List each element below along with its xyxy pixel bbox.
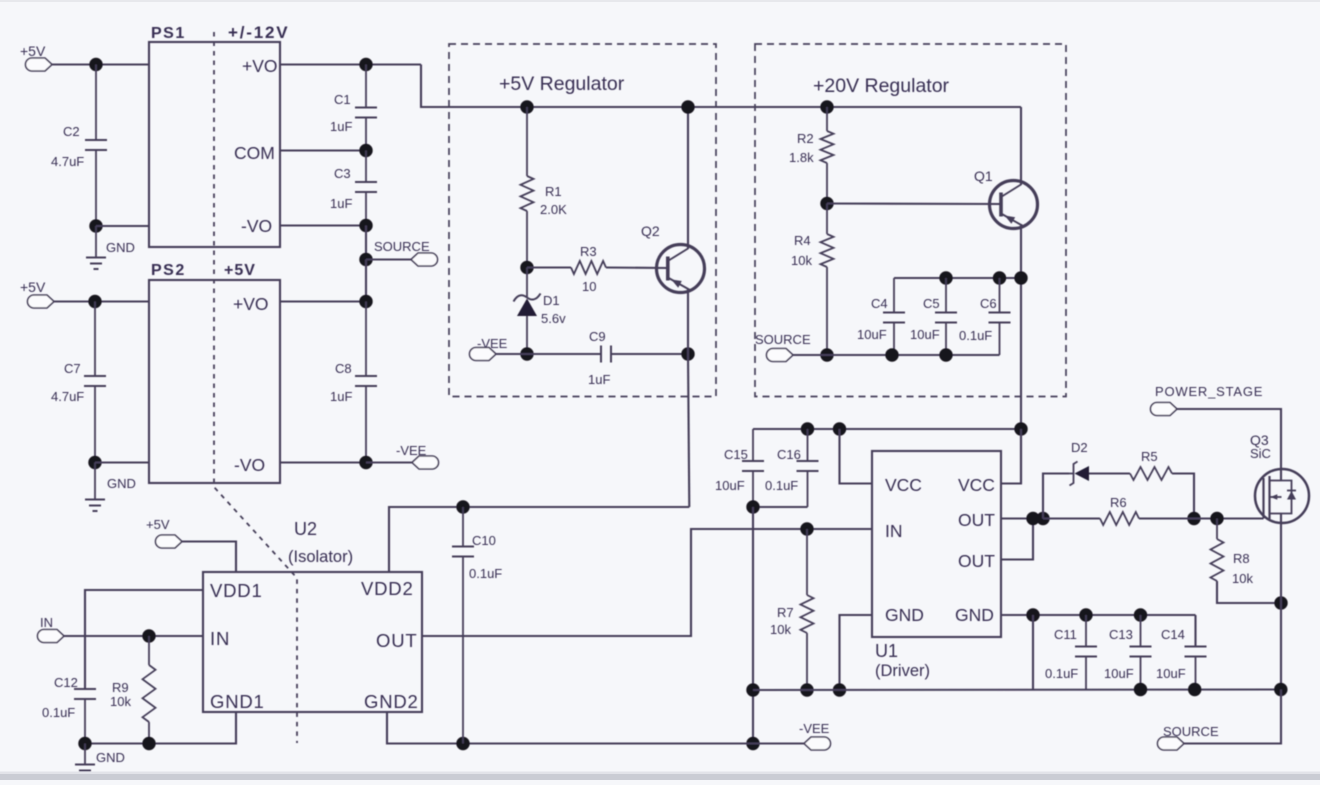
- svg-text:C1: C1: [334, 92, 351, 107]
- svg-text:C14: C14: [1161, 627, 1185, 642]
- junction -VO/C3: [359, 219, 372, 232]
- node -VEE (+5V reg): [470, 336, 508, 361]
- svg-text:0.1uF: 0.1uF: [42, 705, 75, 720]
- ground GND (PS1): [86, 226, 135, 269]
- svg-text:GND: GND: [955, 605, 994, 625]
- svg-text:C6: C6: [980, 296, 997, 311]
- transistor Q2: [641, 223, 705, 293]
- junction rail/C6 top: [993, 271, 1006, 284]
- junction +5V/C7: [88, 295, 101, 308]
- wire Q1 base: [827, 202, 1001, 205]
- svg-text:-VEE: -VEE: [396, 443, 427, 458]
- svg-text:R4: R4: [794, 233, 811, 248]
- svg-text:C4: C4: [871, 296, 888, 311]
- svg-text:SOURCE: SOURCE: [374, 239, 430, 254]
- wire +5V to PS1: [52, 63, 149, 65]
- svg-text:1uF: 1uF: [330, 196, 352, 211]
- svg-text:(Driver): (Driver): [875, 662, 930, 680]
- svg-text:1uF: 1uF: [330, 119, 352, 134]
- wire C7 to PS2: [95, 461, 149, 463]
- svg-text:0.1uF: 0.1uF: [765, 478, 798, 493]
- wire PS1 +VO: [280, 65, 449, 108]
- resistor R6: [1043, 495, 1264, 525]
- svg-text:-VO: -VO: [241, 216, 272, 236]
- wire VCC left pin: [840, 429, 873, 484]
- schottky diode D2: [1069, 440, 1089, 486]
- svg-text:10k: 10k: [110, 694, 131, 709]
- junction COM/C1/C3: [359, 144, 372, 157]
- svg-text:VDD1: VDD1: [210, 580, 263, 601]
- node SOURCE (PS1): [366, 239, 438, 266]
- svg-text:U2: U2: [294, 519, 317, 539]
- svg-text:-VEE: -VEE: [477, 336, 508, 351]
- junction rail/R2: [820, 100, 833, 113]
- wire -VEE to C9: [496, 353, 601, 355]
- wire Q1 collector: [1020, 107, 1022, 185]
- svg-text:+VO: +VO: [233, 294, 269, 314]
- svg-text:+5V: +5V: [20, 43, 46, 59]
- node +5V input (PS2): [20, 279, 54, 308]
- svg-text:SiC: SiC: [1250, 446, 1271, 461]
- svg-text:+/-12V: +/-12V: [228, 23, 289, 42]
- svg-text:R1: R1: [545, 184, 562, 199]
- svg-text:GND: GND: [96, 750, 125, 765]
- capacitor C10 0.1uF: [452, 507, 502, 744]
- capacitor C9 1uF: [588, 329, 688, 387]
- junction C5/SOURCE rail: [939, 348, 952, 361]
- resistor R3 10: [527, 244, 668, 294]
- capacitor C1: [330, 65, 377, 151]
- svg-text:C15: C15: [724, 447, 748, 462]
- junction VEE rail bottom: [746, 737, 759, 750]
- svg-text:0.1uF: 0.1uF: [1045, 666, 1078, 681]
- wire +5V to PS2: [54, 300, 149, 302]
- capacitor C7: [51, 302, 106, 463]
- junction C10/GND2 rail: [456, 737, 469, 750]
- svg-text:IN: IN: [40, 615, 53, 630]
- zener diode D1 5.6v: [514, 268, 567, 355]
- svg-text:PS2: PS2: [151, 262, 186, 279]
- junction PS2 +VO/C8: [359, 295, 372, 308]
- junction D1/-VEE/C9: [520, 347, 533, 360]
- svg-text:5.6v: 5.6v: [541, 311, 566, 326]
- resistor R1 2.0K: [521, 107, 568, 268]
- power module PS1: [149, 23, 289, 247]
- svg-text:Q2: Q2: [641, 223, 660, 239]
- resistor R4 10k: [791, 204, 834, 356]
- capacitor C16 0.1uF: [753, 429, 819, 507]
- node SOURCE (bottom): [1158, 724, 1219, 750]
- svg-text:IN: IN: [210, 628, 230, 649]
- node IN input: [38, 615, 65, 643]
- wire SOURCE to PS2 +VO: [365, 260, 367, 302]
- junction C9/Q2 emitter: [681, 347, 694, 360]
- svg-text:VDD2: VDD2: [361, 578, 414, 599]
- wire SOURCE rail: [793, 354, 1000, 356]
- junction source/C-rail: [1274, 683, 1287, 696]
- junction -VO/C8/-VEE: [359, 456, 372, 469]
- svg-text:10uF: 10uF: [910, 327, 940, 342]
- node +5V input (PS1): [20, 43, 52, 71]
- svg-text:Q1: Q1: [974, 168, 993, 184]
- wire Q3 source down: [1280, 514, 1282, 690]
- svg-text:0.1uF: 0.1uF: [959, 328, 992, 343]
- driver U1: [872, 451, 1001, 680]
- svg-text:10uF: 10uF: [1156, 666, 1186, 681]
- svg-text:10k: 10k: [791, 253, 812, 268]
- wire VDD1 to C12: [85, 590, 203, 689]
- junction IN/R9: [142, 629, 155, 642]
- node POWER_STAGE: [1151, 384, 1264, 416]
- junction rail/Q2 collector: [681, 100, 694, 113]
- svg-text:R2: R2: [797, 131, 814, 146]
- svg-text:SOURCE: SOURCE: [755, 332, 811, 347]
- svg-text:10uF: 10uF: [1104, 666, 1134, 681]
- node -VEE (bottom): [799, 721, 831, 750]
- junction GND right riser: [1026, 608, 1039, 621]
- capacitor C2: [51, 65, 107, 227]
- svg-text:COM: COM: [234, 143, 275, 163]
- junction C2/GND: [89, 219, 102, 232]
- wire C15 bottom down: [752, 507, 754, 744]
- wire U2 OUT to U1 IN: [422, 529, 872, 636]
- resistor R9 10k: [110, 636, 156, 744]
- +20V Regulator dashed box: [755, 44, 1066, 397]
- wire C2 to PS1: [96, 225, 149, 227]
- wire source to SOURCE tag: [1184, 690, 1281, 744]
- svg-text:VCC: VCC: [885, 475, 922, 495]
- junction rail/Q1 emitter: [1014, 271, 1027, 284]
- wire GND right pin: [1001, 614, 1196, 616]
- svg-text:4.7uF: 4.7uF: [51, 154, 84, 169]
- resistor R8 10k: [1211, 519, 1282, 604]
- junction SOURCE tap: [359, 253, 372, 266]
- svg-text:-VEE: -VEE: [799, 721, 830, 736]
- wire IN to U2: [64, 635, 203, 637]
- junction rail/C16: [801, 422, 814, 435]
- svg-text:GND: GND: [107, 476, 136, 491]
- junction C11 top: [1079, 608, 1092, 621]
- capacitor C13 10uF: [1104, 615, 1152, 690]
- node -VEE (PS2): [366, 443, 439, 469]
- power module PS2: [149, 262, 280, 483]
- junction rail/VCC left: [833, 422, 846, 435]
- svg-text:R8: R8: [1233, 551, 1250, 566]
- junction R6/R8: [1210, 512, 1223, 525]
- svg-text:10uF: 10uF: [715, 478, 745, 493]
- svg-text:GND: GND: [106, 240, 135, 255]
- svg-text:+5V: +5V: [146, 517, 170, 532]
- svg-text:10k: 10k: [770, 622, 791, 637]
- junction C10 top: [456, 500, 469, 513]
- junction +VO/C1: [359, 58, 372, 71]
- svg-text:OUT: OUT: [958, 510, 995, 530]
- junction R9/GND rail: [142, 737, 155, 750]
- svg-text:C10: C10: [472, 533, 496, 548]
- +5V Regulator dashed box: [449, 44, 716, 397]
- svg-text:2.0K: 2.0K: [540, 202, 567, 217]
- wire GND2 rail: [387, 712, 804, 744]
- svg-text:R6: R6: [1110, 495, 1127, 510]
- svg-text:POWER_STAGE: POWER_STAGE: [1155, 384, 1263, 399]
- wire Q2 collector: [687, 107, 689, 249]
- wire VEE rail: [753, 688, 1281, 691]
- capacitor C8: [330, 302, 377, 463]
- svg-text:1uF: 1uF: [330, 389, 352, 404]
- junction C14/VEE rail: [1188, 683, 1201, 696]
- capacitor C5 10uF: [910, 278, 957, 355]
- transistor Q1: [974, 168, 1038, 229]
- junction C13 top: [1134, 608, 1147, 621]
- junction rail/Q1 line: [1014, 422, 1027, 435]
- svg-text:U1: U1: [875, 641, 898, 661]
- junction rail/R1: [520, 100, 533, 113]
- capacitor C12 0.1uF: [42, 675, 96, 744]
- wire OUT1 pin: [1001, 517, 1043, 519]
- wire GND left pin: [840, 615, 873, 690]
- svg-text:C8: C8: [335, 361, 352, 376]
- isolation dashed line PS1/PS2: [214, 32, 297, 743]
- junction R5/R6: [1187, 512, 1200, 525]
- svg-text:+5V: +5V: [224, 262, 256, 279]
- svg-text:GND1: GND1: [210, 691, 265, 712]
- svg-text:D2: D2: [1071, 440, 1088, 455]
- node +5V (U2): [146, 517, 182, 548]
- wire VCC right pin: [1001, 429, 1021, 484]
- resistor R5: [1089, 449, 1194, 519]
- node SOURCE (+20V reg): [755, 332, 811, 362]
- svg-text:10uF: 10uF: [857, 327, 887, 342]
- svg-text:+20V Regulator: +20V Regulator: [813, 75, 950, 97]
- svg-text:GND: GND: [885, 605, 924, 625]
- junction C13/VEE rail: [1134, 683, 1147, 696]
- junction OUT1/OUT2: [1026, 512, 1039, 525]
- svg-text:R9: R9: [112, 680, 129, 695]
- capacitor C6 0.1uF: [959, 278, 1011, 355]
- ground GND (U2): [75, 744, 125, 777]
- svg-text:OUT: OUT: [958, 551, 995, 571]
- junction R7 top: [800, 522, 813, 535]
- junction rail/C5 top: [939, 271, 952, 284]
- svg-text:C16: C16: [777, 447, 801, 462]
- svg-text:C3: C3: [334, 166, 351, 181]
- junction R1/R3/D1: [520, 261, 533, 274]
- capacitor C11 0.1uF: [1045, 615, 1097, 690]
- junction C12/GND rail: [78, 737, 91, 750]
- svg-text:SOURCE: SOURCE: [1163, 724, 1219, 739]
- svg-text:R3: R3: [580, 244, 597, 259]
- junction GND left/VEE rail: [833, 683, 846, 696]
- svg-text:C13: C13: [1109, 627, 1133, 642]
- junction C15/C16 bottom: [746, 500, 759, 513]
- resistor R2 1.8k: [789, 107, 834, 204]
- svg-text:C11: C11: [1054, 627, 1077, 642]
- svg-text:+5V Regulator: +5V Regulator: [499, 73, 625, 95]
- svg-text:10: 10: [582, 279, 596, 294]
- wire -VO to SOURCE: [365, 226, 367, 260]
- svg-text:C5: C5: [923, 296, 940, 311]
- junction R7/VEE rail: [800, 683, 813, 696]
- wire GND right riser: [1032, 615, 1034, 690]
- svg-text:R5: R5: [1141, 449, 1158, 464]
- junction VEE rail mid: [746, 683, 759, 696]
- svg-text:4.7uF: 4.7uF: [51, 389, 84, 404]
- svg-text:PS1: PS1: [151, 25, 186, 42]
- svg-text:C7: C7: [64, 361, 81, 376]
- wire PS2 +VO: [280, 300, 366, 302]
- svg-text:+VO: +VO: [242, 56, 278, 76]
- capacitor C3: [330, 151, 377, 226]
- junction C7/GND: [88, 456, 101, 469]
- wire PS1 -VO: [280, 224, 366, 226]
- wire VCC top rail: [753, 428, 1021, 430]
- svg-text:VCC: VCC: [958, 475, 995, 495]
- mosfet Q3 SiC: [1250, 432, 1309, 523]
- ground GND (PS2): [85, 463, 136, 512]
- wire +12V rail: [421, 106, 1021, 108]
- svg-text:C2: C2: [63, 124, 80, 139]
- svg-text:1uF: 1uF: [588, 372, 610, 387]
- wire GND1 rail: [85, 712, 236, 744]
- wire PS2 -VO: [280, 461, 366, 463]
- wire PS1 COM: [280, 149, 366, 151]
- svg-text:1.8k: 1.8k: [789, 150, 814, 165]
- svg-text:0.1uF: 0.1uF: [469, 566, 502, 581]
- wire Q1 emitter down: [1020, 224, 1022, 484]
- resistor R7 10k: [770, 529, 814, 690]
- wire VDD2 riser: [389, 507, 689, 572]
- svg-text:D1: D1: [543, 293, 560, 308]
- svg-text:+5V: +5V: [20, 279, 46, 295]
- junction R4/SOURCE rail: [820, 348, 833, 361]
- capacitor C14 10uF: [1156, 615, 1207, 690]
- isolator U2: [203, 519, 422, 712]
- svg-text:R7: R7: [777, 605, 794, 620]
- capacitor C15 10uF: [715, 429, 764, 507]
- wire OUT2 pin: [1001, 519, 1033, 560]
- wire POWER_STAGE to Q3 drain: [1177, 409, 1281, 481]
- junction C4/SOURCE rail: [885, 348, 898, 361]
- junction OUT/D2 branch: [1036, 512, 1049, 525]
- svg-text:C12: C12: [54, 675, 78, 690]
- svg-text:-VO: -VO: [234, 455, 265, 475]
- wire Q2 emitter down: [688, 289, 689, 507]
- svg-text:10k: 10k: [1232, 571, 1253, 586]
- junction +5V/C2: [89, 58, 102, 71]
- wire +5V to U2 VDD1: [182, 542, 236, 573]
- svg-text:OUT: OUT: [376, 630, 417, 651]
- wire cap top rail (+20V): [894, 277, 1021, 279]
- junction R8/source line: [1274, 596, 1287, 609]
- svg-text:C9: C9: [589, 329, 606, 344]
- svg-text:GND2: GND2: [364, 691, 419, 712]
- svg-text:(Isolator): (Isolator): [288, 548, 353, 566]
- junction R2/R4/Q1 base: [820, 197, 833, 210]
- svg-text:IN: IN: [885, 521, 903, 541]
- wire D2 branch riser: [1043, 474, 1069, 519]
- capacitor C4 10uF: [857, 278, 905, 355]
